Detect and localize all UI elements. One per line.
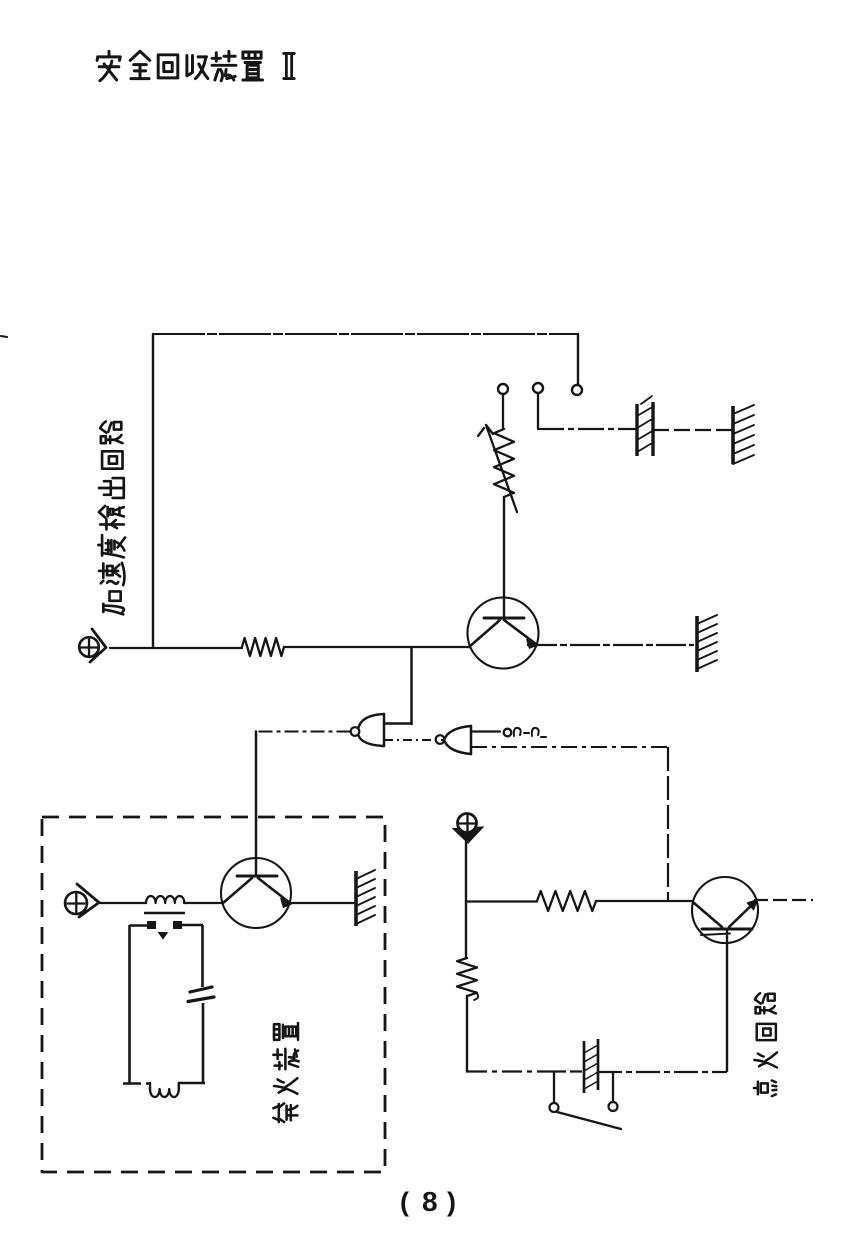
svg-text:(: ( bbox=[400, 1187, 409, 1217]
svg-text:): ) bbox=[447, 1187, 456, 1217]
svg-text:8: 8 bbox=[422, 1186, 438, 1217]
